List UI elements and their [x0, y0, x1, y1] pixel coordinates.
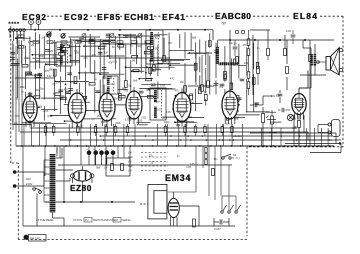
svg-text:2k2: 2k2 — [111, 83, 116, 86]
svg-text:0.1: 0.1 — [58, 64, 62, 67]
svg-text:220k: 220k — [52, 56, 58, 59]
svg-text:EABC80: EABC80 — [215, 11, 252, 21]
svg-text:EF85: EF85 — [97, 12, 121, 22]
svg-text:470: 470 — [83, 57, 88, 60]
svg-text:EF41: EF41 — [162, 12, 186, 22]
svg-text:82p: 82p — [45, 63, 50, 66]
svg-text:1M: 1M — [132, 60, 135, 63]
svg-text:82p: 82p — [24, 57, 29, 60]
svg-text:0.02: 0.02 — [47, 75, 52, 78]
svg-text:0.1: 0.1 — [53, 93, 57, 96]
svg-text:1M: 1M — [104, 167, 107, 170]
svg-text:2k2: 2k2 — [13, 64, 18, 67]
svg-text:EL84: EL84 — [293, 11, 318, 21]
svg-text:AERIAL: AERIAL — [122, 219, 132, 222]
svg-text:0.02: 0.02 — [160, 84, 165, 87]
svg-text:470k: 470k — [51, 42, 57, 45]
svg-text:0.05: 0.05 — [166, 111, 171, 114]
svg-text:MW: MW — [128, 156, 133, 159]
svg-text:0.05: 0.05 — [137, 119, 142, 122]
svg-text:EZ80: EZ80 — [70, 183, 92, 193]
svg-text:ECH81: ECH81 — [124, 12, 154, 22]
svg-text:0.02: 0.02 — [97, 91, 102, 94]
svg-text:10n: 10n — [156, 68, 161, 71]
svg-text:0.02: 0.02 — [157, 109, 162, 112]
svg-text:6k8: 6k8 — [122, 88, 127, 91]
svg-text:0.02: 0.02 — [103, 77, 108, 80]
svg-text:2M2: 2M2 — [222, 62, 227, 65]
svg-text:82p: 82p — [39, 88, 44, 91]
svg-text:470: 470 — [243, 44, 248, 47]
svg-text:240V: 240V — [26, 182, 32, 186]
svg-text:EM34: EM34 — [165, 173, 191, 183]
svg-text:→: → — [9, 171, 12, 175]
svg-text:FM: FM — [114, 219, 118, 222]
svg-text:470k: 470k — [70, 82, 76, 85]
svg-text:6k8: 6k8 — [146, 89, 151, 92]
svg-text:6k8: 6k8 — [96, 166, 101, 169]
svg-text:LW: LW — [128, 170, 132, 173]
svg-text:SWITCH AND POS: SWITCH AND POS — [93, 219, 115, 222]
svg-text:2M2: 2M2 — [49, 68, 54, 71]
svg-text:10n: 10n — [244, 62, 249, 65]
svg-text:AT THE REAR: AT THE REAR — [36, 218, 54, 222]
svg-text:10n: 10n — [214, 158, 219, 161]
svg-text:0.05: 0.05 — [186, 166, 191, 169]
svg-text:0.02: 0.02 — [153, 37, 158, 40]
svg-text:0.047: 0.047 — [214, 227, 221, 231]
svg-text:EC92: EC92 — [64, 12, 89, 22]
svg-text:220k: 220k — [162, 117, 168, 120]
svg-text:6k8: 6k8 — [133, 79, 138, 82]
svg-text:470k: 470k — [47, 115, 53, 118]
svg-text:470k: 470k — [38, 55, 44, 58]
svg-text:PU: PU — [85, 219, 89, 222]
svg-text:470: 470 — [170, 78, 175, 81]
svg-text:6k8: 6k8 — [156, 100, 161, 103]
svg-text:EC92: EC92 — [22, 12, 47, 22]
svg-text:220k: 220k — [115, 122, 121, 125]
svg-text:100p: 100p — [164, 121, 170, 124]
svg-text:0.02: 0.02 — [286, 30, 291, 33]
svg-text:MW: MW — [128, 165, 133, 168]
svg-text:→: → — [9, 185, 12, 189]
svg-text:LW: LW — [128, 161, 132, 164]
svg-text:470: 470 — [75, 52, 80, 55]
svg-text:0.02: 0.02 — [141, 117, 146, 120]
svg-text:0.05: 0.05 — [190, 163, 195, 166]
svg-text:100p: 100p — [43, 110, 49, 113]
svg-text:6k8: 6k8 — [192, 37, 197, 40]
svg-text:470k: 470k — [164, 63, 170, 66]
svg-text:82p: 82p — [276, 95, 281, 98]
svg-text:1M: 1M — [114, 97, 117, 100]
svg-text:100p: 100p — [136, 45, 142, 48]
svg-text:10n: 10n — [91, 72, 96, 75]
svg-text:0.05: 0.05 — [112, 60, 117, 63]
svg-text:10n: 10n — [180, 81, 185, 84]
svg-text:470: 470 — [175, 89, 180, 92]
svg-text:100p: 100p — [59, 95, 65, 98]
svg-text:LW: LW — [128, 152, 132, 155]
svg-text:787: 787 — [221, 22, 227, 26]
svg-text:1M: 1M — [168, 42, 171, 45]
svg-text:2M2: 2M2 — [20, 86, 25, 89]
svg-text:1M: 1M — [104, 52, 107, 55]
svg-text:1M: 1M — [56, 81, 59, 84]
svg-text:✱✱✱✱: ✱✱✱✱ — [8, 21, 20, 25]
svg-text:220: 220 — [26, 177, 31, 181]
svg-text:6k8: 6k8 — [38, 106, 43, 109]
svg-text:AT POS: AT POS — [73, 219, 82, 222]
svg-text:RM ORG: RM ORG — [30, 236, 41, 240]
svg-text:6k8: 6k8 — [65, 91, 70, 94]
